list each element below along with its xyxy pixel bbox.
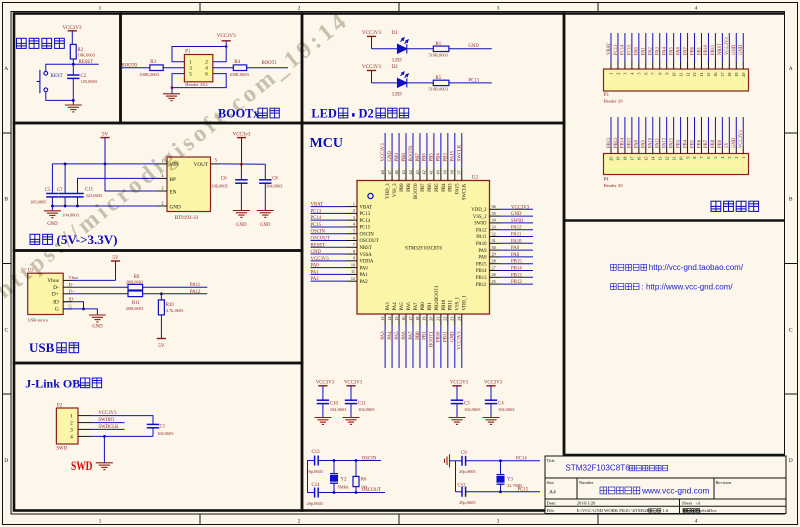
svg-text:VSSA: VSSA — [360, 253, 373, 258]
svg-text:PB8: PB8 — [402, 153, 407, 162]
block frame LED — [302, 14, 564, 124]
svg-text:1.6: 1.6 — [663, 508, 669, 513]
pin 47 VSS_3 top — [391, 168, 393, 181]
svg-text:R6: R6 — [361, 477, 367, 482]
svg-text:48: 48 — [380, 170, 385, 174]
wire net PA3 bottom — [384, 325, 386, 368]
svg-text:5: 5 — [637, 73, 642, 75]
wire net PC14 P3 — [624, 33, 626, 62]
svg-text:PA9: PA9 — [511, 246, 520, 251]
svg-text:PB12: PB12 — [476, 283, 487, 288]
svg-text:PB12: PB12 — [607, 137, 612, 148]
svg-text:PA11: PA11 — [190, 283, 201, 288]
svg-text:PB8: PB8 — [711, 139, 716, 148]
pin 7 NRST left — [346, 246, 357, 248]
svg-text:33: 33 — [492, 225, 496, 230]
pin 5 P3 — [638, 62, 640, 69]
capacitor C1 — [147, 424, 159, 427]
wire net GND P4 — [735, 117, 737, 147]
wire net SWCLK top — [461, 133, 463, 168]
pin 6 P3 — [645, 62, 647, 69]
svg-text:Number: Number — [579, 480, 594, 485]
wire net BOOT0 top — [412, 133, 414, 168]
pin stubs P2 — [78, 416, 91, 437]
pin 17 P4 — [631, 147, 633, 154]
pin stubs U3 — [63, 280, 72, 309]
pin 8 P3 — [659, 62, 661, 69]
svg-text:12: 12 — [351, 276, 355, 281]
pin 22 PB11 bottom — [447, 314, 449, 325]
pin 12 P3 — [687, 62, 689, 69]
capacitor C15 — [71, 194, 83, 197]
svg-text:PA3: PA3 — [656, 46, 661, 55]
capacitor C6 — [240, 164, 242, 180]
resistor R2 — [70, 44, 76, 59]
wire net PC15 P3 — [631, 33, 633, 62]
svg-text:PA4: PA4 — [388, 331, 393, 340]
wire net PA4 P3 — [666, 33, 668, 62]
wire net PA11 P4 — [659, 117, 661, 147]
svg-text:VBAT: VBAT — [311, 203, 324, 208]
wire BP to C15 — [78, 178, 158, 193]
svg-text:LED: LED — [311, 107, 337, 121]
wire net PB1 P3 — [700, 33, 702, 62]
node usb gnd junction — [82, 308, 85, 311]
svg-text:PA12: PA12 — [511, 226, 522, 231]
svg-text:B: B — [789, 197, 793, 203]
svg-text:Date:: Date: — [547, 501, 557, 506]
svg-text:5V: 5V — [725, 142, 730, 148]
wire net OSCOUT — [311, 240, 347, 242]
svg-text:16: 16 — [401, 317, 406, 321]
svg-text:7: 7 — [650, 73, 655, 75]
wire net PB3 top — [447, 133, 449, 168]
svg-text:NRST: NRST — [360, 246, 372, 251]
svg-text:GND: GND — [311, 250, 322, 255]
wire net SWIO right — [501, 222, 534, 224]
LED D2 — [398, 72, 409, 88]
svg-text:37: 37 — [457, 170, 462, 174]
svg-text:4: 4 — [695, 519, 698, 525]
pin 29 PA8 right — [490, 256, 501, 258]
capacitor C2 — [72, 64, 74, 75]
svg-text:File:: File: — [547, 508, 555, 513]
node y3 junctions — [499, 459, 502, 462]
svg-text:5V: 5V — [102, 132, 109, 138]
resistor R6 — [355, 461, 357, 477]
svg-text:PC14: PC14 — [311, 216, 322, 221]
svg-text:PB6: PB6 — [697, 139, 702, 148]
svg-text:PB15: PB15 — [511, 260, 522, 265]
pin 38 PA15 top — [454, 168, 456, 181]
wire net PB14 P4 — [624, 117, 626, 147]
pin 3 P4 — [728, 147, 730, 154]
wire net PA1 — [311, 273, 347, 275]
svg-text:PB12: PB12 — [511, 280, 522, 285]
svg-text:Vbus: Vbus — [47, 278, 58, 284]
wire net 5V P4 — [728, 117, 730, 147]
pin 19 P3 — [735, 62, 737, 69]
block frame external terminals — [564, 14, 785, 456]
svg-text:5V: 5V — [112, 255, 119, 261]
node y2 junctions — [333, 459, 336, 462]
svg-text:8: 8 — [692, 157, 697, 159]
title block frame — [545, 456, 786, 514]
svg-text:GND: GND — [732, 137, 737, 148]
svg-text:OSCIN: OSCIN — [360, 232, 375, 237]
svg-text:2: 2 — [161, 201, 163, 206]
svg-text:PB7: PB7 — [421, 183, 426, 192]
svg-text:VCC3V3: VCC3V3 — [344, 380, 363, 385]
wire BOOT0 — [122, 67, 150, 69]
svg-text:VSS_1: VSS_1 — [456, 296, 461, 310]
wire net GND top — [391, 133, 393, 168]
ground jlink — [103, 436, 105, 462]
pin 14 PA4 bottom — [391, 314, 393, 325]
pin 2 P4 — [735, 147, 737, 154]
block frame MCU — [302, 123, 564, 511]
pin 19 P4 — [617, 147, 619, 154]
svg-text:20: 20 — [609, 157, 614, 161]
pin 16 P4 — [638, 147, 640, 154]
svg-text:PC13: PC13 — [360, 212, 371, 217]
pin 15 P4 — [645, 147, 647, 154]
svg-text:C6: C6 — [221, 177, 227, 182]
pin 15 PA5 bottom — [398, 314, 400, 325]
header P3 — [604, 69, 749, 91]
svg-text:5: 5 — [713, 157, 718, 159]
block frame USB — [14, 251, 302, 364]
svg-text:NRST: NRST — [718, 43, 723, 55]
pin 10 PA0 left — [346, 267, 357, 269]
svg-text:9: 9 — [685, 157, 690, 159]
svg-text:RT9193-33: RT9193-33 — [175, 215, 199, 221]
svg-text:PB15: PB15 — [476, 262, 487, 267]
svg-text:C12: C12 — [458, 484, 467, 489]
svg-text:VCC3V3: VCC3V3 — [362, 31, 381, 36]
svg-text:PB3: PB3 — [676, 139, 681, 148]
pin 9 P3 — [666, 62, 668, 69]
svg-text:26: 26 — [492, 272, 496, 277]
svg-text:PB5: PB5 — [430, 153, 435, 162]
wire net PB0 bottom — [419, 325, 421, 368]
svg-text:B: B — [4, 197, 8, 203]
svg-text:GND: GND — [468, 44, 479, 49]
svg-text:PA15: PA15 — [456, 183, 461, 194]
svg-text:of: of — [697, 501, 701, 506]
svg-text:PB0: PB0 — [416, 331, 421, 340]
wire net PA6 P3 — [680, 33, 682, 62]
wire PC15 — [466, 491, 540, 493]
svg-text:Vbus: Vbus — [69, 275, 79, 280]
svg-text:USB: USB — [29, 340, 55, 355]
svg-text:www.vcc-gnd.com: www.vcc-gnd.com — [641, 486, 710, 496]
svg-text:3: 3 — [727, 157, 732, 159]
LED D1 — [398, 38, 409, 54]
wire net PB12 right — [501, 283, 534, 285]
svg-text:C7: C7 — [57, 188, 63, 193]
svg-text:VDDA: VDDA — [360, 260, 374, 265]
svg-text:2016/1/26: 2016/1/26 — [577, 501, 596, 506]
pin 42 PB6 top — [426, 168, 428, 181]
svg-text:Header 20: Header 20 — [604, 183, 624, 188]
pin 27 PB14 right — [490, 270, 501, 272]
svg-text:PB4: PB4 — [683, 139, 688, 148]
svg-text:PA3: PA3 — [381, 331, 386, 340]
wire net PB7 P4 — [707, 117, 709, 147]
wire net VBAT P3 — [610, 33, 612, 62]
svg-text:STM32F103C8T6: STM32F103C8T6 — [565, 464, 630, 473]
svg-text:8MHz: 8MHz — [338, 484, 349, 489]
svg-text:PB15: PB15 — [628, 137, 633, 148]
svg-text:D1: D1 — [392, 31, 399, 36]
wire net GND P3 — [735, 33, 737, 62]
svg-text:PB13: PB13 — [511, 273, 522, 278]
svg-text:3: 3 — [70, 427, 73, 433]
wire net PA7 P3 — [687, 33, 689, 62]
wire net PB12 P4 — [610, 117, 612, 147]
svg-text:PC15: PC15 — [518, 488, 529, 493]
pin 5 OSCIN left — [346, 233, 357, 235]
svg-text:PB10: PB10 — [704, 44, 709, 55]
svg-text:PA1: PA1 — [360, 273, 369, 278]
svg-text:Title: Title — [547, 458, 555, 463]
ground C11 — [343, 418, 360, 425]
svg-text:PB1: PB1 — [428, 302, 433, 311]
svg-text:P2: P2 — [57, 403, 63, 408]
pin 2 P3 — [617, 62, 619, 69]
svg-text:BOOT0: BOOT0 — [409, 145, 414, 161]
svg-text:Y2: Y2 — [341, 477, 347, 482]
wire to net PC13 — [449, 82, 492, 84]
pin 18 P3 — [728, 62, 730, 69]
svg-text:SWCLK: SWCLK — [463, 183, 468, 200]
pin 28 PB15 right — [490, 263, 501, 265]
svg-text:C13: C13 — [312, 450, 321, 455]
wire net PB0 P3 — [694, 33, 696, 62]
svg-text:PA12: PA12 — [190, 290, 201, 295]
wire net PA15 top — [454, 133, 456, 168]
svg-text:C8: C8 — [272, 177, 278, 182]
pin 8 P4 — [694, 147, 696, 154]
svg-text:7: 7 — [699, 157, 704, 159]
pin 12 PA2 left — [346, 280, 357, 282]
resistor R5 — [433, 80, 449, 85]
wire net PA3 P3 — [659, 33, 661, 62]
header P2 — [56, 408, 78, 444]
svg-text:SWCLK: SWCLK — [458, 144, 463, 161]
pin 17 PA7 bottom — [412, 314, 414, 325]
capacitor C9 — [456, 460, 463, 462]
wire net RESET — [311, 246, 347, 248]
svg-text:41: 41 — [429, 170, 434, 174]
pin 12 P4 — [666, 147, 668, 154]
svg-text:3: 3 — [161, 186, 163, 191]
wire net PB11 bottom — [447, 325, 449, 368]
ground boot — [171, 88, 173, 94]
svg-text:STM32F103C8T6: STM32F103C8T6 — [405, 247, 442, 252]
svg-text:OSCOUT: OSCOUT — [360, 239, 379, 244]
svg-text:C: C — [789, 328, 793, 334]
capacitor C13 — [315, 456, 319, 466]
wire net PA9 P4 — [645, 117, 647, 147]
svg-text:9: 9 — [664, 73, 669, 75]
svg-text:VCC3V3: VCC3V3 — [739, 130, 744, 148]
title block number text — [600, 487, 640, 494]
wire ground rail power — [52, 205, 157, 207]
svg-text:D+: D+ — [69, 289, 75, 294]
svg-text:PB0: PB0 — [421, 302, 426, 311]
svg-text:PA6: PA6 — [676, 46, 681, 55]
svg-text:ID: ID — [53, 300, 59, 306]
svg-text:VSS_2: VSS_2 — [473, 215, 487, 220]
svg-text:11: 11 — [351, 269, 355, 274]
pin 20 P4 — [610, 147, 612, 154]
svg-text:Revision: Revision — [716, 480, 732, 485]
wire P1 pin4 to R4 — [213, 67, 234, 69]
svg-text:3: 3 — [497, 519, 500, 525]
pin 23 VSS_1 bottom — [454, 314, 456, 325]
capacitor C7 — [64, 164, 66, 194]
capacitor C8 — [264, 164, 266, 180]
svg-text:47: 47 — [387, 170, 392, 174]
svg-text:25: 25 — [492, 279, 496, 284]
svg-text:2: 2 — [734, 157, 739, 159]
svg-text:PA2: PA2 — [649, 46, 654, 55]
resistor R9 — [128, 284, 143, 290]
svg-text:C3: C3 — [464, 401, 470, 406]
svg-text:PC15: PC15 — [360, 226, 371, 231]
svg-text:D-: D- — [69, 282, 74, 287]
wire PA11 — [143, 286, 208, 288]
svg-text:VCC3V3: VCC3V3 — [725, 37, 730, 55]
wire net PB7 top — [419, 133, 421, 168]
pin 1 indicator — [368, 193, 373, 198]
pin 35 VSS_2 right — [490, 215, 501, 217]
block frame JLink — [14, 363, 302, 511]
svg-text:C4: C4 — [498, 401, 504, 406]
svg-text:E:\VCC-GND WORK FILE\.\STM32F1: E:\VCC-GND WORK FILE\.\STM32F1 — [577, 508, 653, 513]
wire net VCC3V3 right — [501, 208, 534, 210]
wire boot bottom loop — [172, 74, 226, 88]
svg-text:10: 10 — [351, 262, 355, 267]
pin 24 VDD_1 bottom — [461, 314, 463, 325]
wire net PB8 top — [405, 133, 407, 168]
svg-text:1: 1 — [70, 414, 73, 420]
svg-text:PB11: PB11 — [711, 44, 716, 55]
pin 21 PB10 bottom — [440, 314, 442, 325]
svg-text:PA7: PA7 — [414, 302, 419, 311]
wire net BOOT1 bottom — [433, 325, 435, 368]
svg-text:18: 18 — [727, 73, 732, 77]
svg-text:D-: D- — [53, 285, 59, 291]
svg-text:7: 7 — [353, 242, 355, 247]
svg-text:PC15: PC15 — [628, 44, 633, 55]
svg-text:45: 45 — [401, 170, 406, 174]
title reset circuit — [17, 38, 65, 48]
capacitor C11 — [345, 400, 357, 403]
wire net PA8 right — [501, 256, 534, 258]
svg-text:35: 35 — [492, 211, 496, 216]
wire vcc to LED D2 — [372, 82, 398, 84]
svg-text:PA3: PA3 — [386, 302, 391, 311]
svg-text:C15: C15 — [85, 187, 94, 192]
svg-text:PA0: PA0 — [635, 46, 640, 55]
pin 43 PB7 top — [419, 168, 421, 181]
svg-text:46: 46 — [394, 170, 399, 174]
svg-text:18: 18 — [415, 317, 420, 321]
node D+ pullup junction — [160, 292, 163, 295]
pin 31 PA10 right — [490, 242, 501, 244]
node boot vcc junction — [225, 45, 228, 48]
pin 2 PC13 left — [346, 212, 357, 214]
svg-text:10: 10 — [678, 157, 683, 161]
resistor R1 — [433, 46, 449, 51]
wire SWDIO — [91, 422, 125, 424]
svg-text:38: 38 — [450, 170, 455, 174]
svg-text:: http://www.vcc-gnd.com/: : http://www.vcc-gnd.com/ — [642, 282, 734, 291]
ground C10 — [314, 418, 331, 425]
svg-text:6: 6 — [706, 157, 711, 159]
wire net PA5 P3 — [673, 33, 675, 62]
wire net VCC3V3 P4 — [742, 117, 744, 147]
pin 15 P3 — [707, 62, 709, 69]
svg-text:PA0: PA0 — [360, 266, 369, 271]
pin 20 P3 — [742, 62, 744, 69]
node reset ground junction — [72, 99, 75, 102]
wire net PA0 — [311, 267, 347, 269]
block frame reset circuit — [14, 14, 121, 124]
wire net PB13 right — [501, 276, 534, 278]
pin 30 PA9 right — [490, 249, 501, 251]
svg-text:PA1: PA1 — [642, 46, 647, 55]
svg-text:C5: C5 — [45, 188, 51, 193]
svg-text:17: 17 — [630, 157, 635, 161]
svg-text:VDD_2: VDD_2 — [471, 208, 487, 213]
svg-text:G: G — [55, 307, 59, 313]
pin 44 BOOT0 top — [412, 168, 414, 181]
svg-text:VCC3V3: VCC3V3 — [484, 380, 503, 385]
wire net PA4 bottom — [391, 325, 393, 368]
wire net PA1 P3 — [645, 33, 647, 62]
svg-text:16: 16 — [637, 157, 642, 161]
svg-text:PB2/BOOT1: PB2/BOOT1 — [435, 285, 440, 311]
svg-text:1: 1 — [99, 6, 102, 12]
svg-text:19: 19 — [734, 73, 739, 77]
svg-text:PA10: PA10 — [649, 137, 654, 148]
wire net PA15 P4 — [673, 117, 675, 147]
wire OSCIN — [318, 460, 381, 462]
wire net PB6 P4 — [700, 117, 702, 147]
wire net VCC3V3 top — [384, 133, 386, 168]
wire net PA2 — [311, 280, 347, 282]
svg-text:PA9: PA9 — [642, 139, 647, 148]
resistor R4 — [233, 65, 246, 71]
svg-text:PB6: PB6 — [423, 153, 428, 162]
svg-text:PA10: PA10 — [476, 242, 487, 247]
svg-text:PB5: PB5 — [690, 139, 695, 148]
svg-text:A: A — [4, 66, 8, 72]
pin 34 SWIO right — [490, 222, 501, 224]
svg-text:36: 36 — [492, 204, 496, 209]
svg-text:GND: GND — [511, 212, 522, 217]
svg-text:Header 20: Header 20 — [604, 99, 624, 104]
svg-text:VCC3V3: VCC3V3 — [362, 65, 381, 70]
wire PC14 — [466, 460, 540, 462]
pin 3 PC14 left — [346, 219, 357, 221]
svg-text:PB6: PB6 — [428, 183, 433, 192]
svg-text:BOOT0: BOOT0 — [414, 183, 419, 199]
